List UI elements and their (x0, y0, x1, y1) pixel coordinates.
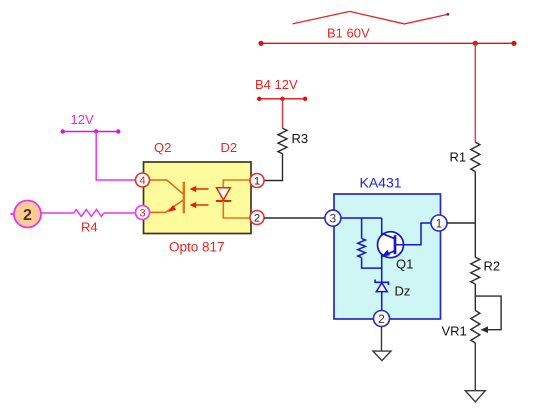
resistor R2 (471, 257, 480, 284)
wire zener to pin2 (381, 292, 383, 311)
wire KA431 pin2 to ground (381, 327, 383, 352)
potentiometer VR1 (471, 311, 480, 344)
svg-text:1: 1 (436, 216, 443, 230)
svg-text:3: 3 (330, 212, 337, 226)
svg-text:KA431: KA431 (360, 174, 402, 190)
svg-text:3: 3 (139, 208, 145, 220)
resistor R1 (471, 142, 480, 171)
LED D2 cathode bar (216, 200, 232, 202)
wire opto pin2 to KA431 pin3 (264, 217, 325, 219)
node junction B1/R1 (473, 41, 478, 46)
wire R4 to opto pin3 (104, 212, 136, 214)
power B4 rail (259, 98, 305, 100)
wire 12V to opto pin4 (96, 132, 135, 181)
svg-text:B4 12V: B4 12V (255, 77, 298, 92)
node junction 12V (94, 129, 98, 133)
VR1 wiper arrow (481, 326, 489, 333)
KA431 pin 3 (325, 210, 341, 226)
LED D2 triangle (217, 188, 231, 200)
wire R2 to VR1 (474, 284, 476, 311)
wire internal resistor branch (361, 218, 363, 238)
resistor R3 (278, 128, 287, 153)
node B1 left dot (258, 41, 263, 46)
ground under KA431 (373, 351, 391, 361)
wire R1 to R2 (474, 172, 476, 258)
node B4 left dot (257, 97, 261, 101)
svg-text:12V: 12V (71, 112, 94, 127)
zener Dz (375, 280, 388, 292)
IC KA431 package box (334, 194, 441, 319)
node 12V right dot (116, 129, 120, 133)
wire VR1 to ground (474, 343, 476, 391)
opto pin 1 (250, 174, 264, 188)
node B4 right dot (303, 97, 307, 101)
VR1 wiper loop (475, 296, 501, 330)
wire B4 to R3 (282, 99, 284, 129)
svg-text:Q2: Q2 (154, 140, 171, 155)
opto phototransistor Q2 collector wire (150, 180, 183, 194)
wire KA431 pin1 to divider (447, 222, 475, 224)
svg-text:Dz: Dz (395, 284, 411, 299)
opto phototransistor Q2 emitter arrow (168, 205, 176, 212)
node B1 right dot (511, 41, 516, 46)
wire emitter to zener (381, 255, 383, 282)
svg-text:2: 2 (23, 207, 32, 224)
svg-text:D2: D2 (221, 140, 238, 155)
wire B1 squiggle (292, 11, 448, 24)
light arrow upper (190, 186, 209, 192)
svg-text:2: 2 (378, 312, 385, 326)
wire R3 to opto pin1 (264, 154, 283, 181)
svg-text:R4: R4 (81, 219, 98, 234)
svg-text:Q1: Q1 (396, 257, 413, 272)
wire node2 to R4 (41, 212, 73, 214)
power 12V rail (63, 131, 119, 133)
svg-text:R3: R3 (292, 131, 309, 146)
svg-text:R2: R2 (484, 259, 501, 274)
node terminal 2 (11, 201, 42, 228)
ground bottom right (465, 391, 485, 402)
opto pin 2 (250, 211, 264, 225)
svg-text:2: 2 (254, 213, 260, 225)
LED D2 cathode wire (223, 201, 249, 218)
node junction B4/R3 (280, 97, 284, 101)
LED D2 anode wire (223, 180, 249, 188)
svg-text:B1 60V: B1 60V (327, 26, 370, 41)
resistor R4 (74, 210, 104, 217)
wire B1 rail (261, 42, 514, 44)
KA431 pin 1 (431, 215, 447, 231)
KA431 pin 2 (374, 311, 390, 327)
wire KA431 pin3 internal (341, 217, 382, 219)
resistor internal (358, 238, 366, 257)
wire B1 to R1 (474, 43, 476, 142)
svg-text:1: 1 (254, 176, 260, 188)
svg-text:VR1: VR1 (442, 323, 467, 338)
opto pin 3 (136, 206, 150, 220)
opto-coupler U1 package box (144, 162, 252, 234)
wire Q1 base to pin1 (395, 223, 431, 245)
transistor Q1 (378, 232, 404, 258)
node 12V left dot (61, 129, 65, 133)
svg-text:R1: R1 (450, 150, 467, 165)
opto pin 4 (136, 173, 150, 187)
opto phototransistor Q2 base bar (183, 182, 185, 214)
opto phototransistor Q2 emitter wire (150, 200, 183, 212)
svg-text:Opto 817: Opto 817 (169, 239, 225, 254)
svg-text:4: 4 (139, 175, 145, 187)
wire collector vertical (381, 218, 383, 236)
light arrow lower (190, 202, 209, 208)
wire internal resistor to emitter (362, 258, 382, 269)
